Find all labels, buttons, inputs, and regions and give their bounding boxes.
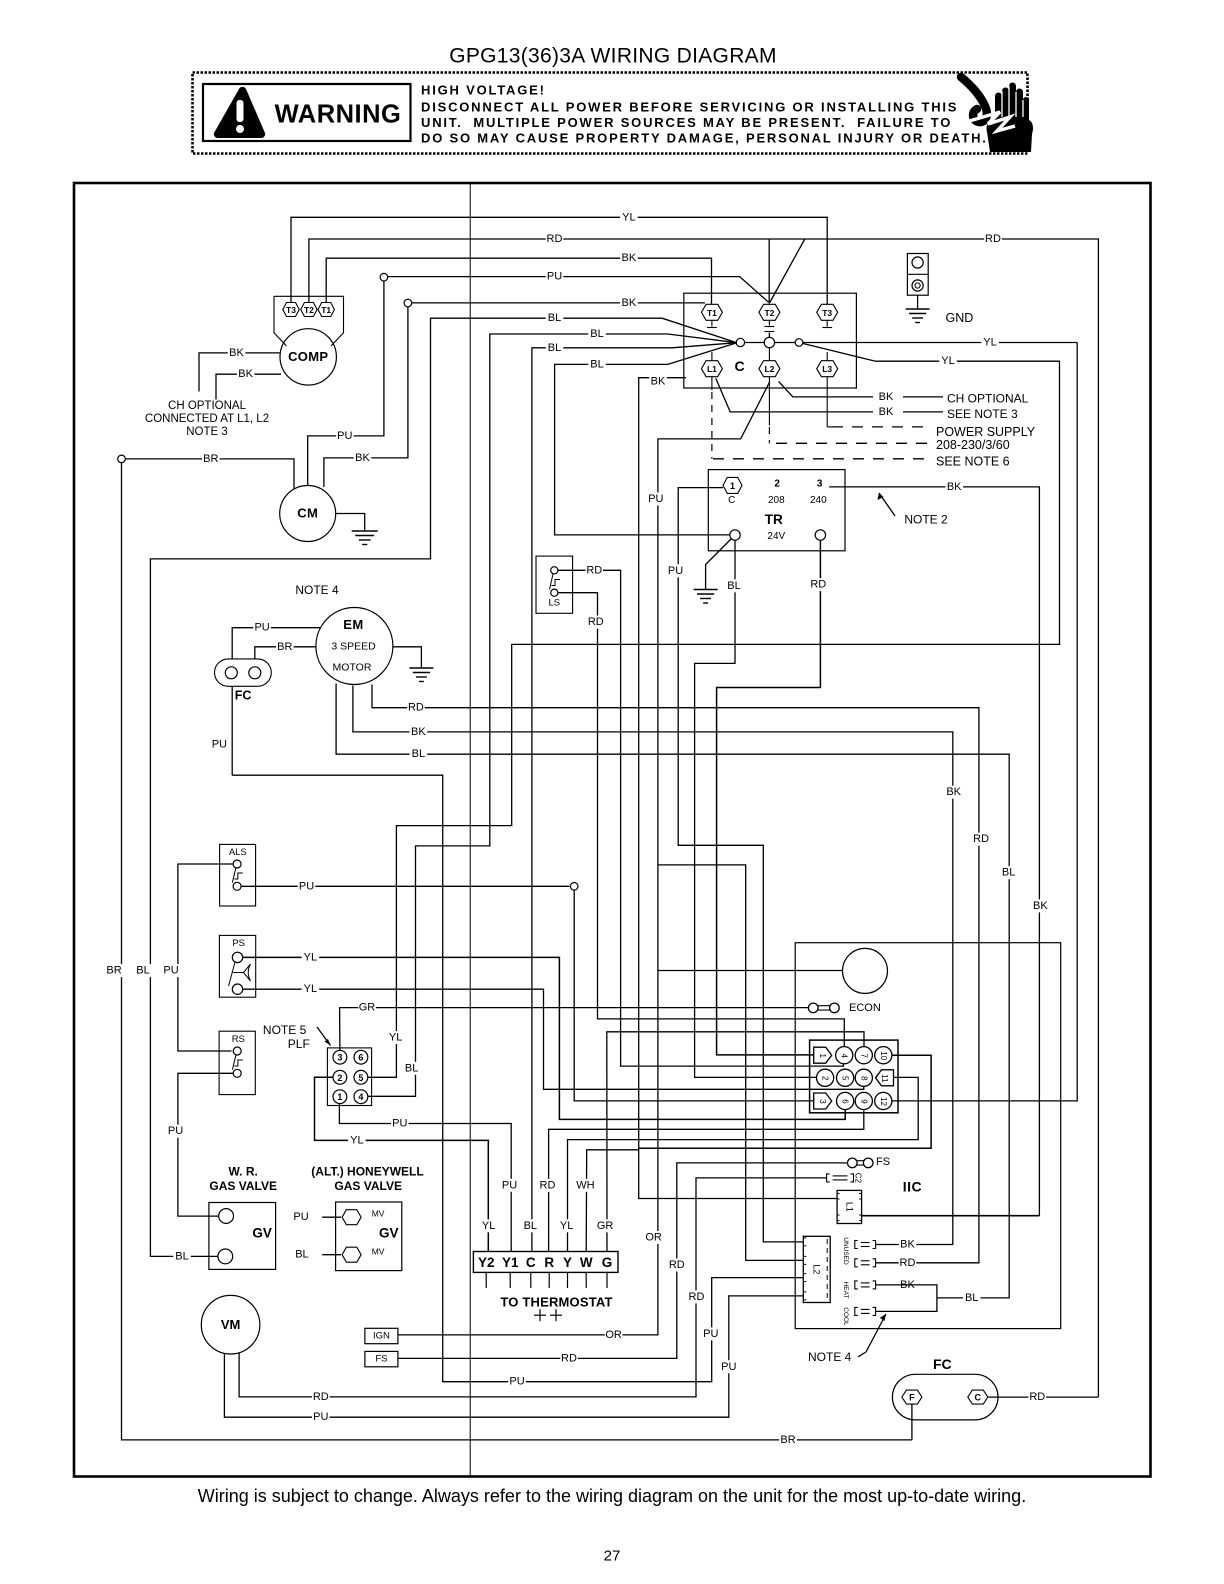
svg-text:BL: BL bbox=[548, 342, 561, 354]
rollout switch RS box bbox=[219, 1031, 255, 1094]
wire RD: TR 24V to IIC pin1 bbox=[717, 540, 821, 1055]
FC terminal F bbox=[902, 1390, 922, 1404]
svg-text:BK: BK bbox=[900, 1239, 915, 1251]
svg-text:BL: BL bbox=[727, 580, 740, 592]
svg-text:BK: BK bbox=[879, 406, 894, 418]
svg-text:YL: YL bbox=[941, 355, 954, 367]
svg-text:GV: GV bbox=[379, 1226, 399, 1241]
ground bbox=[352, 530, 378, 532]
svg-text:1: 1 bbox=[337, 1092, 342, 1102]
svg-text:2: 2 bbox=[337, 1073, 342, 1083]
svg-text:RD: RD bbox=[586, 564, 602, 576]
svg-text:PU: PU bbox=[313, 1411, 328, 1423]
svg-text:T3: T3 bbox=[286, 305, 296, 315]
svg-text:7: 7 bbox=[859, 1053, 868, 1058]
wire YL: thermostat Y to IIC pin11 bbox=[568, 1077, 919, 1251]
warning triangle icon bbox=[214, 87, 265, 138]
IIC pin 1 bbox=[814, 1047, 832, 1063]
svg-text:HIGH VOLTAGE!: HIGH VOLTAGE! bbox=[421, 83, 546, 98]
IIC pin 7 bbox=[855, 1047, 872, 1064]
furnace plug PLF box bbox=[327, 1048, 371, 1106]
svg-text:12: 12 bbox=[879, 1097, 888, 1106]
terminal (BK) bbox=[404, 299, 412, 307]
wire IIC pin10 to BK bus bbox=[639, 1055, 931, 1148]
svg-text:L3: L3 bbox=[822, 364, 832, 374]
wire PU: VM to L2 pin4 bbox=[224, 1296, 803, 1417]
wire BL: EM to HEAT/COOL plugs (IIC) bbox=[336, 684, 1009, 1298]
svg-text:Wiring is subject to change. A: Wiring is subject to change. Always refe… bbox=[198, 1486, 1026, 1506]
wire BR: EM to FC bbox=[255, 647, 317, 667]
RD plug bbox=[855, 1259, 858, 1267]
LS bottom pin bbox=[551, 589, 558, 596]
wire BL 4: contact to TR 24V pin bbox=[555, 343, 737, 535]
svg-text:8: 8 bbox=[859, 1076, 868, 1081]
svg-text:BL: BL bbox=[524, 1220, 537, 1232]
wire: OR tap to L2 connector pin2 bbox=[658, 865, 803, 1261]
svg-text:FC: FC bbox=[235, 689, 252, 703]
svg-text:DISCONNECT ALL POWER BEFORE SE: DISCONNECT ALL POWER BEFORE SERVICING OR… bbox=[421, 100, 958, 115]
stub BL to Honeywell GV bbox=[322, 1254, 341, 1256]
svg-text:FC: FC bbox=[933, 1356, 952, 1372]
wire PU: PLF 1 to thermostat Y1 bbox=[339, 1104, 511, 1252]
svg-text:RD: RD bbox=[547, 233, 563, 245]
svg-text:MV: MV bbox=[372, 1208, 385, 1218]
PLF pin 4 bbox=[354, 1090, 368, 1104]
svg-text:RD: RD bbox=[1029, 1391, 1045, 1403]
contact line with movable contacts bbox=[744, 342, 1077, 344]
svg-text:T3: T3 bbox=[822, 308, 832, 318]
wire BL 2: contact to PLF pin4 bbox=[368, 334, 737, 1096]
svg-text:4: 4 bbox=[358, 1092, 363, 1102]
svg-text:PU: PU bbox=[212, 738, 227, 750]
COOL plug bbox=[855, 1307, 858, 1315]
wire PU: CM to contactor T2 bbox=[308, 281, 384, 486]
svg-text:BL: BL bbox=[136, 965, 149, 977]
svg-text:WARNING: WARNING bbox=[275, 101, 402, 129]
svg-text:BL: BL bbox=[548, 312, 561, 324]
ground lug block GND bbox=[907, 254, 928, 296]
wire to FS plug bbox=[398, 1163, 848, 1359]
svg-text:MOTOR: MOTOR bbox=[333, 662, 372, 674]
svg-text:PU: PU bbox=[703, 1328, 718, 1340]
PLF pin 6 bbox=[354, 1050, 368, 1064]
CH OPTIONAL stubs at COMP bbox=[199, 353, 280, 392]
svg-text:BK: BK bbox=[622, 252, 637, 264]
NOTE5 arrow bbox=[317, 1027, 331, 1046]
svg-text:CONNECTED AT L1, L2: CONNECTED AT L1, L2 bbox=[145, 413, 269, 425]
wire BK: CM to contactor T1 side bbox=[324, 307, 408, 487]
fold line bbox=[469, 183, 471, 1477]
svg-text:RD: RD bbox=[669, 1259, 685, 1271]
svg-text:FS: FS bbox=[375, 1354, 387, 1365]
svg-text:PS: PS bbox=[232, 938, 245, 949]
svg-text:YL: YL bbox=[350, 1134, 363, 1146]
svg-text:24V: 24V bbox=[767, 531, 785, 542]
svg-text:YL: YL bbox=[560, 1220, 573, 1232]
svg-text:RD: RD bbox=[689, 1291, 705, 1303]
svg-text:PU: PU bbox=[293, 1211, 308, 1223]
wire GR: PLF 3 to ECON plug bbox=[340, 1008, 809, 1051]
svg-text:C: C bbox=[728, 495, 735, 506]
gas valve GV (Honeywell alt) bbox=[336, 1202, 402, 1271]
svg-text:W: W bbox=[580, 1255, 593, 1270]
svg-text:EM: EM bbox=[343, 617, 364, 632]
svg-text:4: 4 bbox=[840, 1053, 849, 1058]
air limit switch ALS box bbox=[220, 844, 256, 906]
wire BL 3: contact to thermostat C bbox=[532, 343, 737, 1252]
limit switch LS box bbox=[536, 556, 573, 613]
svg-text:GPG13(36)3A WIRING DIAGRAM: GPG13(36)3A WIRING DIAGRAM bbox=[449, 45, 777, 68]
svg-text:C: C bbox=[734, 358, 744, 374]
svg-text:GR: GR bbox=[359, 1002, 376, 1014]
contactor L3 bbox=[817, 361, 838, 377]
svg-text:NOTE 2: NOTE 2 bbox=[904, 513, 948, 527]
svg-text:IIC: IIC bbox=[903, 1178, 922, 1194]
main diagram border bbox=[74, 183, 1151, 1477]
terminal T3 (COMP) bbox=[283, 303, 299, 317]
svg-text:L2: L2 bbox=[812, 1264, 822, 1274]
svg-text:BK: BK bbox=[1033, 900, 1048, 912]
wire RD: LS top to IIC pin4 (bottom) bbox=[558, 570, 844, 1066]
L hexagon stubs to contact line bbox=[711, 352, 713, 361]
svg-text:RD: RD bbox=[561, 1352, 577, 1364]
PLF pin 3 bbox=[333, 1050, 347, 1064]
hand shock icon bbox=[961, 77, 1033, 152]
svg-text:BL: BL bbox=[965, 1292, 978, 1304]
gas valve GV (White-Rodgers) bbox=[209, 1203, 276, 1270]
ALS pins bbox=[233, 860, 241, 868]
svg-text:TR: TR bbox=[765, 512, 783, 527]
terminal T2 (COMP) bbox=[301, 303, 317, 317]
wire BR: left bus terminal to CM bbox=[118, 455, 126, 463]
IIC harness box bbox=[795, 943, 1060, 1329]
svg-text:G: G bbox=[602, 1255, 613, 1270]
flame sensor FS box bbox=[365, 1351, 398, 1366]
fan capacitor FC bbox=[892, 1374, 998, 1420]
svg-text:BL: BL bbox=[295, 1249, 308, 1261]
wire BK: COMP T1 to contactor T1 bbox=[326, 258, 711, 304]
contactor C box bbox=[684, 293, 857, 388]
compressor COMP bbox=[280, 329, 336, 385]
12-pin connector block bbox=[810, 1040, 898, 1113]
stub PU to Honeywell GV bbox=[322, 1216, 341, 1218]
svg-text:F: F bbox=[909, 1393, 915, 1403]
svg-text:PU: PU bbox=[299, 880, 314, 892]
svg-text:R: R bbox=[544, 1255, 554, 1270]
IIC pin 10 bbox=[875, 1047, 892, 1064]
svg-text:C2: C2 bbox=[854, 1173, 863, 1184]
thermostat terminal strip bbox=[473, 1252, 618, 1273]
svg-text:YL: YL bbox=[622, 211, 635, 223]
IIC pin 2 bbox=[817, 1069, 834, 1086]
wire PU/OR: contactor L2 down to economizer and IGN bbox=[398, 382, 770, 1335]
IIC pin 4 bbox=[836, 1047, 853, 1064]
svg-text:CH OPTIONAL: CH OPTIONAL bbox=[947, 392, 1029, 406]
wire RD: thermostat R to IIC pin9 bbox=[549, 1111, 864, 1252]
svg-text:PU: PU bbox=[668, 565, 683, 577]
svg-text:GAS VALVE: GAS VALVE bbox=[334, 1179, 402, 1193]
contact stubs under T1,T2,T3 bbox=[711, 320, 713, 326]
HEAT plug bbox=[855, 1281, 858, 1289]
wire BL: TR 24V to IIC pin2 bbox=[695, 540, 817, 1077]
svg-text:YL: YL bbox=[389, 1032, 402, 1044]
svg-text:RD: RD bbox=[973, 833, 989, 845]
wire BL 1: contact to gas valve via left bus bbox=[150, 318, 737, 1256]
TR terminal 1 bbox=[723, 477, 742, 493]
svg-text:BK: BK bbox=[229, 347, 244, 359]
svg-text:10: 10 bbox=[879, 1051, 888, 1060]
svg-text:9: 9 bbox=[859, 1099, 868, 1104]
wire RD: FC C to right bus bbox=[988, 1396, 1099, 1398]
vent motor VM bbox=[201, 1295, 260, 1354]
svg-text:MV: MV bbox=[372, 1247, 385, 1257]
contactor T2 bbox=[759, 304, 780, 320]
svg-text:RS: RS bbox=[232, 1034, 245, 1045]
wire BK lower: to L1 and down to IIC L1 connector bbox=[639, 378, 837, 1199]
fuse FC (blower) bbox=[215, 659, 272, 686]
svg-text:YL: YL bbox=[304, 951, 317, 963]
svg-text:YL: YL bbox=[304, 983, 317, 995]
svg-text:RD: RD bbox=[588, 616, 604, 628]
wire PU: TR C terminal bbox=[678, 488, 803, 1242]
IIC pin 3 bbox=[814, 1093, 832, 1109]
ground bbox=[906, 308, 930, 310]
svg-text:L1: L1 bbox=[707, 364, 717, 374]
svg-text:(ALT.) HONEYWELL: (ALT.) HONEYWELL bbox=[311, 1164, 423, 1178]
svg-text:BL: BL bbox=[590, 328, 603, 340]
svg-text:C: C bbox=[975, 1393, 982, 1403]
svg-text:W. R.: W. R. bbox=[229, 1164, 258, 1178]
svg-text:BR: BR bbox=[277, 641, 292, 653]
svg-text:2: 2 bbox=[774, 479, 780, 490]
wire BR left bus down to FC(F) at bottom bbox=[122, 463, 912, 1440]
svg-text:PLF: PLF bbox=[288, 1037, 310, 1051]
svg-text:COOL: COOL bbox=[842, 1307, 849, 1326]
svg-text:POWER SUPPLY: POWER SUPPLY bbox=[936, 425, 1036, 439]
TR 24V pin right bbox=[815, 530, 825, 540]
svg-text:BK: BK bbox=[879, 391, 894, 403]
RS pins bbox=[233, 1047, 241, 1055]
svg-text:T2: T2 bbox=[764, 308, 774, 318]
blower motor EM bbox=[316, 608, 393, 685]
svg-text:208: 208 bbox=[768, 495, 785, 506]
wire YL: COMP T3 to contactor T3 bbox=[291, 217, 827, 304]
svg-text:NOTE 3: NOTE 3 bbox=[186, 426, 228, 438]
svg-text:PU: PU bbox=[254, 622, 269, 634]
wire PU: FC down, right, to L2 connector pin3 bbox=[232, 775, 803, 1381]
svg-text:3: 3 bbox=[817, 479, 823, 490]
plug bbox=[813, 1005, 834, 1007]
contactor T1 bbox=[701, 304, 722, 320]
warning box bbox=[193, 73, 1028, 154]
svg-text:HEAT: HEAT bbox=[842, 1282, 849, 1299]
svg-text:PU: PU bbox=[163, 965, 178, 977]
POWER SUPPLY dashed leads bbox=[711, 377, 713, 390]
pressure switch PS box bbox=[219, 935, 255, 997]
wire YL: PS top to IIC pin6 bbox=[243, 957, 846, 1119]
svg-text:Y2: Y2 bbox=[478, 1255, 495, 1270]
svg-text:L1: L1 bbox=[844, 1202, 854, 1212]
svg-text:BR: BR bbox=[106, 965, 121, 977]
wire BR: FC F down to bottom bus bbox=[911, 1404, 913, 1440]
svg-text:BK: BK bbox=[238, 368, 253, 380]
HEAT/COOL jumper bracket bbox=[876, 1285, 937, 1312]
svg-text:OR: OR bbox=[605, 1329, 622, 1341]
svg-text:240: 240 bbox=[810, 495, 827, 506]
IIC pin 9 bbox=[855, 1092, 872, 1109]
terminal T1 (COMP) bbox=[318, 303, 334, 317]
svg-text:NOTE 4: NOTE 4 bbox=[808, 1350, 852, 1364]
IIC pin 8 bbox=[855, 1069, 872, 1086]
ground bbox=[694, 589, 718, 591]
wire RD drop into T2 bbox=[768, 239, 770, 304]
svg-text:RD: RD bbox=[540, 1179, 556, 1191]
svg-text:11: 11 bbox=[880, 1074, 889, 1083]
svg-text:T2: T2 bbox=[304, 305, 314, 315]
wire PU: ALS bottom to terminal to IIC pin3 bbox=[241, 885, 570, 887]
ground bbox=[409, 667, 433, 669]
svg-text:BL: BL bbox=[1002, 867, 1015, 879]
wires BK to CH OPTIONAL note (L1, L2) bbox=[779, 382, 873, 397]
transformer TR box bbox=[708, 470, 845, 551]
IIC pin 11 bbox=[876, 1070, 894, 1086]
++ marks bbox=[534, 1314, 546, 1316]
svg-text:BK: BK bbox=[355, 452, 370, 464]
svg-text:YL: YL bbox=[482, 1220, 495, 1232]
svg-text:VM: VM bbox=[221, 1317, 241, 1332]
svg-text:BK: BK bbox=[622, 297, 637, 309]
svg-text:COMP: COMP bbox=[288, 349, 328, 364]
svg-text:1: 1 bbox=[818, 1053, 827, 1058]
svg-text:BK: BK bbox=[947, 481, 962, 493]
svg-text:PU: PU bbox=[648, 493, 663, 505]
wire BK: TR 3 to right bus down to IIC L1 bbox=[829, 487, 1039, 1216]
svg-text:PU: PU bbox=[547, 271, 562, 283]
L2 relay connector (IIC) bbox=[803, 1236, 830, 1302]
svg-text:BL: BL bbox=[405, 1062, 418, 1074]
contactor L1 bbox=[701, 361, 722, 377]
CM ground wire bbox=[336, 514, 365, 532]
EM ground bbox=[393, 647, 422, 668]
FC terminal C bbox=[968, 1390, 988, 1404]
wire: RS bottom to GV bbox=[178, 1073, 233, 1216]
contactor T3 bbox=[817, 304, 838, 320]
svg-text:RD: RD bbox=[900, 1257, 916, 1269]
svg-text:Y: Y bbox=[563, 1255, 572, 1270]
svg-text:IGN: IGN bbox=[373, 1331, 390, 1342]
C2 connector bbox=[827, 1174, 830, 1182]
wire RD: COMP T2 to contactor T2 and right bus to FC coil bbox=[309, 239, 1099, 1397]
svg-text:BR: BR bbox=[203, 453, 218, 465]
wire YL: PS bottom to IIC pin8 bbox=[243, 989, 864, 1089]
wire RD: EM to RD plug (IIC) bbox=[372, 685, 979, 1263]
svg-text:PU: PU bbox=[392, 1118, 407, 1130]
svg-text:OR: OR bbox=[645, 1232, 662, 1244]
svg-text:UNUSED: UNUSED bbox=[842, 1237, 849, 1265]
svg-text:BL: BL bbox=[590, 358, 603, 370]
svg-text:TO THERMOSTAT: TO THERMOSTAT bbox=[500, 1294, 612, 1309]
svg-text:GAS VALVE: GAS VALVE bbox=[209, 1179, 277, 1193]
svg-text:1: 1 bbox=[730, 481, 735, 491]
condenser motor CM bbox=[280, 486, 336, 542]
L1 relay connector (IIC) bbox=[837, 1190, 862, 1223]
economizer motor circle bbox=[843, 948, 888, 993]
svg-text:Y1: Y1 bbox=[502, 1255, 519, 1270]
svg-text:SEE NOTE 6: SEE NOTE 6 bbox=[936, 454, 1010, 468]
wire: ALS top to RS top (PU bus) bbox=[178, 864, 233, 1051]
IIC pin 12 bbox=[875, 1092, 892, 1109]
wire YL: contact line right bus down to IIC pin12 bbox=[892, 343, 1077, 1101]
contactor coil circles bbox=[736, 338, 744, 346]
LS switch arm bbox=[550, 574, 554, 590]
wire BK: EM to UNUSED plug (IIC) bbox=[353, 686, 953, 1245]
svg-text:BL: BL bbox=[412, 748, 425, 760]
svg-text:WH: WH bbox=[576, 1179, 594, 1191]
svg-text:CH OPTIONAL: CH OPTIONAL bbox=[168, 400, 247, 412]
svg-text:27: 27 bbox=[604, 1548, 621, 1565]
svg-text:NOTE 4: NOTE 4 bbox=[295, 583, 339, 597]
svg-text:BK: BK bbox=[411, 726, 426, 738]
wire WH: thermostat W up to BK bus bbox=[586, 1150, 639, 1252]
wire RD diagonal into T2 bbox=[770, 239, 805, 303]
igniter IGN box bbox=[365, 1328, 398, 1343]
wire to C2 to VM bbox=[239, 1178, 827, 1397]
PLF pin 1 bbox=[333, 1090, 347, 1104]
svg-text:3: 3 bbox=[818, 1099, 827, 1104]
svg-text:C: C bbox=[526, 1255, 536, 1270]
compressor COMP terminal housing bbox=[274, 296, 344, 346]
stubs below thermostat strip bbox=[485, 1272, 487, 1288]
plug bbox=[852, 1160, 868, 1162]
svg-text:ECON: ECON bbox=[849, 1002, 881, 1014]
wire YL: PLF 2 to thermostat Y2 bbox=[315, 1077, 489, 1251]
IIC pin 6 bbox=[837, 1092, 854, 1109]
terminal (PU) bbox=[380, 273, 388, 281]
wire PU: EM to FC and down to IIC L2 pin3 bbox=[232, 628, 321, 667]
svg-text:T1: T1 bbox=[321, 305, 331, 315]
svg-text:L2: L2 bbox=[764, 364, 774, 374]
svg-text:PU: PU bbox=[509, 1376, 524, 1388]
wire YL2: contact to PLF pin5 bbox=[368, 344, 1060, 1078]
LS top pin bbox=[551, 567, 558, 574]
svg-text:RD: RD bbox=[985, 233, 1001, 245]
svg-text:6: 6 bbox=[841, 1099, 850, 1104]
TR ground bbox=[706, 539, 732, 590]
wire to economizer motor bbox=[658, 970, 843, 972]
NOTE 2 arrow bbox=[879, 493, 895, 516]
svg-text:3: 3 bbox=[337, 1053, 342, 1063]
svg-text:ALS: ALS bbox=[229, 847, 247, 858]
svg-text:2: 2 bbox=[821, 1076, 830, 1081]
UNUSED plug bbox=[855, 1241, 858, 1249]
svg-text:SEE NOTE 3: SEE NOTE 3 bbox=[947, 407, 1018, 421]
wire RD: LS bottom to IIC pin4 (top) bbox=[558, 593, 844, 1047]
svg-text:LS: LS bbox=[548, 598, 560, 609]
svg-text:PU: PU bbox=[721, 1361, 736, 1373]
TR 24V pin left bbox=[730, 530, 740, 540]
svg-text:GND: GND bbox=[946, 311, 974, 325]
svg-text:6: 6 bbox=[358, 1053, 363, 1063]
svg-text:RD: RD bbox=[408, 702, 424, 714]
svg-text:PU: PU bbox=[337, 430, 352, 442]
svg-text:DO SO MAY CAUSE PROPERTY DAMAG: DO SO MAY CAUSE PROPERTY DAMAGE, PERSONA… bbox=[421, 131, 988, 146]
IIC pin 5 bbox=[837, 1069, 854, 1086]
svg-text:GR: GR bbox=[597, 1220, 614, 1232]
svg-text:5: 5 bbox=[841, 1076, 850, 1081]
svg-text:BK: BK bbox=[651, 375, 666, 387]
svg-text:PU: PU bbox=[168, 1125, 183, 1137]
svg-text:BR: BR bbox=[780, 1434, 795, 1446]
